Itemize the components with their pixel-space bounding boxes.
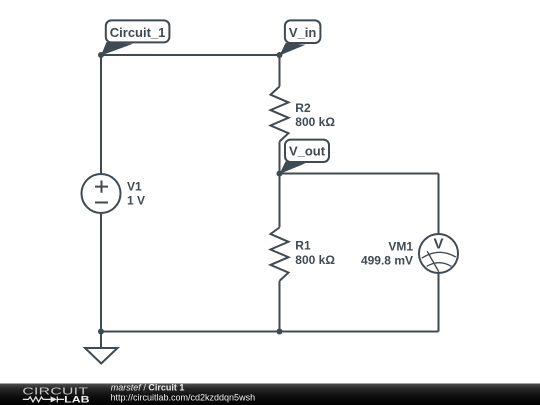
svg-text:V_in: V_in — [289, 25, 317, 40]
svg-text:Circuit_1: Circuit_1 — [110, 25, 166, 40]
wire from node V_out down to R1 — [279, 174, 281, 228]
node label Circuit_1 — [101, 20, 169, 55]
wire from node V_out right to voltmeter branch — [280, 173, 439, 175]
wire from voltmeter bottom to bottom wire — [438, 273, 440, 332]
svg-text:http://circuitlab.com/cd2kzddq: http://circuitlab.com/cd2kzddqn5wsh — [111, 393, 256, 403]
voltage source V1 — [82, 174, 121, 213]
svg-text:R1: R1 — [295, 239, 311, 253]
resistor R1 — [271, 228, 289, 281]
svg-text:1 V: 1 V — [127, 194, 145, 208]
node label V_out — [280, 140, 330, 174]
junction dot ground node — [98, 329, 104, 335]
label V1 value 1 V — [127, 180, 145, 208]
wire right vertical down to voltmeter top — [438, 174, 440, 235]
svg-text:499.8 mV: 499.8 mV — [361, 254, 413, 268]
logo diode — [51, 396, 57, 402]
wire from R2 bottom to node V_out — [279, 142, 281, 174]
svg-text:marstef / Circuit 1: marstef / Circuit 1 — [111, 383, 185, 393]
svg-text:LAB: LAB — [64, 395, 90, 405]
svg-text:V: V — [433, 236, 443, 253]
label VM1 reading — [361, 240, 413, 268]
wire from node V_in down to R2 — [279, 55, 281, 87]
svg-text:VM1: VM1 — [388, 240, 413, 254]
node label V_in — [280, 20, 321, 55]
footer bar — [0, 384, 540, 405]
junction dot node Circuit_1 — [98, 52, 104, 58]
svg-text:R2: R2 — [295, 101, 311, 115]
resistor R2 — [271, 87, 289, 142]
voltmeter VM1 — [419, 234, 458, 273]
junction dot node V_out — [277, 171, 283, 177]
logo resistor zigzag — [23, 397, 51, 402]
label R1 800 kOhm — [295, 239, 335, 267]
wire left vertical from node Circuit_1 down to V1 top terminal — [100, 55, 102, 174]
wire top horizontal from node Circuit_1 to node V_in — [101, 54, 280, 56]
wire from R1 bottom to bottom junction — [279, 281, 281, 332]
label R2 800 kOhm — [295, 101, 335, 129]
svg-text:V1: V1 — [127, 180, 142, 194]
wire bottom horizontal — [101, 331, 439, 333]
junction dot R1 bottom — [277, 329, 283, 335]
ground — [85, 332, 118, 364]
svg-text:800 kΩ: 800 kΩ — [295, 115, 335, 129]
junction dot node V_in — [277, 52, 283, 58]
wire left vertical from V1 bottom terminal to bottom-left junction — [100, 213, 102, 332]
svg-text:V_out: V_out — [289, 144, 326, 159]
svg-text:800 kΩ: 800 kΩ — [295, 253, 335, 267]
